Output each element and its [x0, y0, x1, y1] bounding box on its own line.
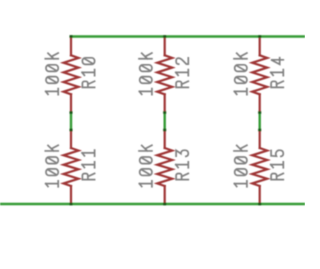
label: R12 value 100k — [139, 53, 152, 95]
label: R13 name — [176, 150, 189, 179]
label: R11 name — [82, 150, 95, 179]
node: column 3 pin junction at top wire — [258, 35, 261, 38]
node: column 1 pin junction at top wire — [70, 35, 73, 38]
node: column 1 pin junction at mid upper pin — [70, 111, 73, 114]
node: column 2 pin junction at top wire — [163, 35, 166, 38]
label: R14 value 100k — [234, 53, 247, 95]
resistor R14 — [252, 37, 267, 113]
label: R12 name — [176, 58, 189, 88]
label: R11 value 100k — [45, 145, 58, 187]
resistor R13 — [157, 130, 172, 204]
node: column 1 pin junction at mid lower pin — [70, 129, 73, 132]
label: R14 name — [271, 58, 284, 88]
wire: column 1 mid vertical net segment — [70, 113, 72, 131]
label: R10 value 100k — [45, 53, 58, 95]
wire: column 2 mid vertical net segment — [163, 113, 165, 131]
node: column 3 pin junction at bottom wire — [258, 203, 261, 206]
resistor R10 — [64, 37, 79, 113]
wire: top horizontal net — [70, 35, 305, 37]
resistor R15 — [252, 130, 267, 204]
label: R10 name — [82, 58, 95, 88]
node: column 3 pin junction at mid lower pin — [258, 129, 261, 132]
wire: column 3 mid vertical net segment — [259, 113, 261, 131]
label: R13 value 100k — [139, 145, 152, 187]
resistor R11 — [64, 130, 79, 204]
label: R15 value 100k — [234, 145, 247, 187]
node: column 2 pin junction at mid lower pin — [163, 129, 166, 132]
wire: bottom horizontal net — [0, 203, 305, 205]
node: column 2 pin junction at bottom wire — [163, 203, 166, 206]
node: column 3 pin junction at mid upper pin — [258, 111, 261, 114]
resistor R12 — [157, 37, 172, 113]
node: column 2 pin junction at mid upper pin — [163, 111, 166, 114]
label: R15 name — [271, 150, 284, 179]
node: column 1 pin junction at bottom wire — [70, 203, 73, 206]
